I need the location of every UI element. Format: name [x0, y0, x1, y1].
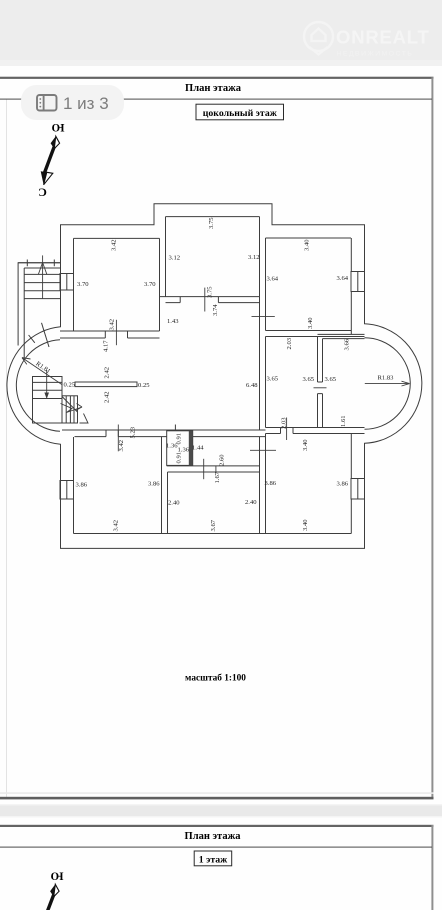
bay radial tick long — [42, 323, 50, 347]
room TL bottom wall lower line with door gap — [60, 337, 160, 339]
svg-text:3.65: 3.65 — [303, 376, 315, 383]
inner top wall right segment — [266, 237, 352, 239]
svg-text:3.65: 3.65 — [267, 376, 279, 383]
interior stair steps — [33, 382, 63, 398]
mid wall door jambs — [106, 430, 118, 437]
svg-text:2.42: 2.42 — [103, 391, 110, 403]
svg-text:3.65: 3.65 — [325, 376, 337, 383]
svg-text:1 из 3: 1 из 3 — [63, 94, 109, 113]
svg-text:План этажа: План этажа — [185, 83, 242, 94]
flight2 steps — [66, 396, 74, 423]
head solid half — [41, 171, 47, 185]
svg-text:3.67: 3.67 — [210, 519, 217, 531]
bay radial tick short — [29, 335, 35, 343]
inner left wall lower — [73, 437, 75, 534]
svg-text:1.44: 1.44 — [192, 445, 204, 452]
head open half — [44, 172, 53, 185]
dimension labels horizontal — [64, 254, 395, 507]
page 1 faint left edge — [5, 99, 8, 797]
svg-text:ONREALT: ONREALT — [336, 27, 430, 48]
bay room door tick — [314, 387, 327, 389]
interior stair arrow — [46, 370, 48, 394]
svg-text:3.42: 3.42 — [111, 239, 118, 251]
svg-text:Ю: Ю — [51, 121, 64, 133]
page 1 header rule — [0, 99, 432, 100]
PLAN group — [7, 204, 422, 549]
inner bottom wall — [74, 533, 352, 535]
subtitle box tsokolny etazh — [196, 104, 284, 120]
exterior stairs top edge — [18, 262, 60, 264]
svg-text:0.91: 0.91 — [176, 433, 183, 445]
partition bar 2.42 — [75, 382, 137, 387]
svg-text:3.74: 3.74 — [212, 304, 219, 316]
faint pre-border shadow line — [0, 792, 434, 794]
bc top wall dim line — [203, 459, 205, 479]
dim line 3.75/3.74 — [204, 288, 206, 312]
right rooms dim tick — [250, 449, 276, 451]
dim line 3.42/4.17 — [115, 320, 117, 345]
hall right wall line b — [265, 238, 267, 534]
small room bottom wall — [266, 428, 323, 434]
inner left wall upper — [73, 238, 75, 331]
flight2 diagonal — [62, 397, 78, 413]
svg-text:План этажа: План этажа — [185, 831, 242, 842]
svg-text:С: С — [38, 185, 47, 199]
bay room door jambs — [318, 382, 323, 394]
svg-text:3.12: 3.12 — [248, 254, 260, 261]
right radius arrowhead — [402, 381, 410, 386]
wall TL-room / bump room — [159, 238, 161, 331]
bay room left wall — [322, 339, 324, 428]
bottom rooms divider left wall — [162, 437, 168, 534]
interior stair arrowhead down — [44, 393, 49, 400]
svg-text:3.75: 3.75 — [207, 286, 214, 298]
exterior stairs ticks — [27, 260, 54, 267]
shaft p2 — [48, 895, 54, 910]
right bay inner arc — [365, 338, 411, 430]
top gray photo band — [0, 0, 442, 66]
inner right wall upper — [350, 238, 352, 335]
svg-text:3.70: 3.70 — [77, 281, 89, 288]
page 1 right border — [431, 77, 433, 799]
svg-text:3.86: 3.86 — [265, 480, 277, 487]
svg-text:1.61: 1.61 — [340, 415, 347, 427]
svg-text:6.48: 6.48 — [246, 382, 258, 389]
hall wall dim tick — [252, 315, 275, 317]
svg-text:3.40: 3.40 — [302, 439, 309, 451]
svg-text:R1.83: R1.83 — [378, 375, 395, 382]
svg-text:5.23: 5.23 — [130, 426, 137, 438]
page 1 top border — [0, 77, 434, 79]
exterior stairs arrow line — [42, 255, 44, 298]
exterior stairs arrowhead up — [38, 263, 47, 275]
watermark logo pin — [304, 22, 333, 55]
svg-text:3.64: 3.64 — [337, 275, 349, 282]
subtitle box 1 etazh — [194, 851, 232, 866]
svg-text:цокольный этаж: цокольный этаж — [203, 108, 278, 119]
left bay outer arc lower part already in contour; stair inner edge — [23, 268, 25, 358]
left radius arrowhead — [22, 358, 31, 365]
svg-text:2.03: 2.03 — [281, 417, 288, 429]
bc top wall tick — [215, 466, 217, 472]
svg-text:2.03: 2.03 — [286, 337, 293, 349]
bump room bottom wall lower line with door gap — [166, 302, 260, 304]
mid-right small room right wall — [317, 337, 319, 428]
svg-text:4.17: 4.17 — [102, 340, 109, 352]
bay room bottom wall — [323, 428, 365, 434]
window W2 top-right — [351, 272, 365, 292]
svg-text:3.42: 3.42 — [113, 520, 120, 532]
svg-text:2.40: 2.40 — [245, 499, 257, 506]
north arrow page1 — [38, 121, 64, 199]
svg-text:3.40: 3.40 — [304, 239, 311, 251]
svg-text:1 этаж: 1 этаж — [199, 855, 228, 866]
left radius line R1.81 — [22, 358, 62, 385]
closet outline — [167, 431, 193, 466]
tail kite open half — [54, 136, 59, 149]
flight2 arrow head — [76, 404, 83, 411]
outer wall contour with bump, bays, stair block — [7, 204, 422, 549]
svg-text:1.67: 1.67 — [214, 471, 221, 483]
tail kite solid half p2 — [50, 884, 55, 897]
pager icon — [37, 95, 57, 111]
svg-text:3.66: 3.66 — [344, 338, 351, 350]
dim line 5.23/3.42 — [117, 425, 119, 452]
svg-text:3.42: 3.42 — [109, 319, 116, 331]
svg-text:3.40: 3.40 — [307, 317, 314, 329]
mid wall lower line with door gap and closet span — [75, 436, 266, 438]
page 2 header rule — [0, 847, 432, 848]
left bay inner arc — [16, 340, 60, 432]
hall right wall line a — [259, 297, 261, 430]
svg-text:2.60: 2.60 — [218, 454, 225, 466]
svg-text:масштаб 1:100: масштаб 1:100 — [185, 673, 246, 684]
door jambs TL — [105, 331, 127, 338]
closet stub — [174, 425, 176, 431]
svg-text:3.70: 3.70 — [144, 281, 156, 288]
window W4 bottom-right — [351, 479, 365, 500]
tail kite open half p2 — [54, 884, 59, 897]
exterior stairs steps — [24, 274, 60, 298]
svg-text:0.25: 0.25 — [138, 382, 150, 389]
bump room inner right — [259, 217, 261, 297]
inter-page gray gap — [0, 806, 442, 817]
svg-text:3.64: 3.64 — [267, 276, 279, 283]
flight2 zigzag arrow — [61, 404, 83, 413]
svg-text:1.43: 1.43 — [167, 318, 179, 325]
dimension labels rotated — [34, 217, 350, 532]
shaft — [44, 147, 54, 174]
svg-text:Ю: Ю — [50, 870, 63, 882]
small room door dim line — [286, 418, 288, 441]
svg-text:НЕДВИЖИМОСТЬ: НЕДВИЖИМОСТЬ — [337, 51, 414, 58]
flight2 small triangle — [80, 414, 89, 424]
mid wall upper line — [62, 429, 266, 431]
page 2 top border — [0, 825, 434, 827]
bump room inner top — [166, 216, 260, 218]
closet thick dark wall — [189, 431, 193, 466]
bump room bottom wall upper line — [160, 296, 260, 298]
bottom-center room top wall — [167, 466, 260, 472]
svg-text:3.42: 3.42 — [118, 440, 125, 452]
inner right wall lower — [350, 434, 352, 534]
bump door jambs — [180, 297, 218, 303]
bump room inner left — [165, 217, 167, 297]
small room door jambs — [281, 428, 294, 434]
svg-text:0.91: 0.91 — [176, 452, 183, 464]
tail kite solid half — [51, 136, 56, 149]
svg-text:3.12: 3.12 — [169, 255, 181, 262]
right radius line R1.83 — [365, 383, 410, 385]
inner top wall left segment — [74, 237, 160, 239]
interior stair rect — [33, 377, 63, 424]
stair flight2 rect — [62, 396, 78, 423]
svg-text:3.86: 3.86 — [76, 482, 88, 489]
svg-text:3.40: 3.40 — [302, 519, 309, 531]
room TL bottom wall upper line — [60, 330, 160, 332]
page 2 right border — [431, 825, 433, 910]
svg-text:2.40: 2.40 — [168, 500, 180, 507]
pager pill — [21, 85, 124, 120]
exterior stairs second edge — [24, 267, 60, 269]
svg-text:3.86: 3.86 — [337, 481, 349, 488]
page 1 bottom border — [0, 797, 434, 800]
window W3 bottom-left — [60, 481, 74, 500]
svg-text:3.86: 3.86 — [148, 481, 160, 488]
window W1 stairs door — [60, 274, 74, 291]
svg-text:2.42: 2.42 — [103, 367, 110, 379]
svg-text:3.75: 3.75 — [208, 217, 215, 229]
bay room top wall — [318, 334, 365, 338]
svg-text:0.25: 0.25 — [64, 382, 76, 389]
TR room bottom wall — [266, 331, 365, 337]
north arrow page2 partial — [48, 870, 64, 910]
lower rooms divider wall line a — [259, 437, 261, 534]
